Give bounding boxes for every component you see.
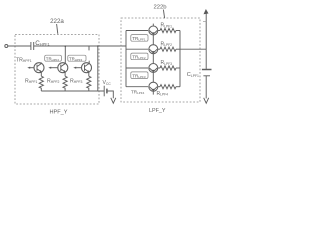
- svg-text:TRLPF1: TRLPF1: [132, 36, 146, 42]
- transistor TR_LPF3: [149, 64, 158, 83]
- transistor TR_LPF1: [149, 26, 158, 45]
- svg-text:TRLPF2: TRLPF2: [132, 55, 146, 61]
- box TR_LPF1: [131, 35, 148, 42]
- resistor R_LPF1: [160, 28, 176, 32]
- wire bus to TR_LPF1: [126, 30, 148, 32]
- stub above TR_LPF1: [152, 24, 154, 27]
- wire R_LPF1 to right bus: [176, 30, 180, 32]
- left bus: [125, 31, 127, 87]
- HPF_Y block dashed border: [15, 35, 99, 105]
- capacitor C_LPF: [202, 69, 212, 71]
- wire R_LPF2 to right bus: [176, 48, 180, 50]
- battery Vcc: [103, 86, 105, 97]
- svg-text:TRLPF3: TRLPF3: [132, 73, 146, 79]
- output wire to C_LPF line: [180, 48, 206, 50]
- box TR_HPF2: [45, 55, 62, 61]
- wire TR_LPF3 to R_LPF3: [158, 67, 160, 69]
- transistor TR_HPF1: [34, 62, 44, 76]
- svg-text:RLPF1: RLPF1: [161, 23, 173, 29]
- svg-text:222a: 222a: [50, 18, 64, 25]
- wire TR_LPF1 to R_LPF1: [158, 30, 160, 32]
- box TR_LPF3: [131, 72, 148, 79]
- ground arrow left: [111, 98, 116, 103]
- transistor TR_LPF2: [149, 45, 158, 64]
- svg-text:CLPF1: CLPF1: [187, 72, 199, 78]
- supply line with up arrow: [205, 13, 207, 49]
- wire into TR_HPF1 base: [30, 67, 34, 69]
- svg-text:TRHPF2: TRHPF2: [46, 56, 60, 62]
- svg-text:RLPF2: RLPF2: [161, 41, 173, 47]
- transistor TR_HPF2: [58, 45, 68, 76]
- wire bus to TR_LPF2: [126, 48, 148, 50]
- vertical rail wire right side of HPF_Y: [97, 46, 99, 91]
- ground bus wire: [41, 90, 104, 92]
- svg-text:RHPF1: RHPF1: [25, 78, 38, 84]
- transistor TR_HPF3: [82, 61, 92, 76]
- svg-text:RHPF2: RHPF2: [47, 78, 60, 84]
- resistor R_HPF1: [39, 76, 43, 91]
- wire capacitor to ground: [205, 76, 207, 99]
- resistor R_LPF4: [160, 85, 176, 89]
- wire TR_LPF2 to R_LPF2: [158, 48, 160, 50]
- transistor TR_LPF4: [149, 82, 158, 94]
- svg-text:TRLPF4: TRLPF4: [131, 90, 145, 96]
- svg-text:TRHPF1: TRHPF1: [16, 57, 32, 63]
- wire TR_LPF4 to R_LPF4: [158, 86, 160, 88]
- resistor R_HPF3: [87, 76, 91, 91]
- wire R_LPF3 to right bus: [176, 67, 180, 69]
- wire R_LPF4 to right bus: [176, 86, 180, 88]
- ground arrow right: [204, 98, 209, 103]
- svg-text:222b: 222b: [153, 4, 167, 10]
- stub from top wire near TR_HPF3: [88, 46, 90, 50]
- resistor R_LPF2: [160, 47, 176, 51]
- top wire node A: [34, 45, 126, 47]
- LPF_Y block dashed border: [121, 18, 200, 102]
- leader line 222b: [163, 10, 164, 19]
- right bus: [179, 31, 181, 87]
- input terminal: [5, 45, 8, 48]
- svg-text:VCC: VCC: [103, 80, 112, 86]
- box TR_HPF3: [68, 55, 86, 61]
- wire TR_HPF1 to TR_HPF2 with arrow: [48, 67, 51, 69]
- signal arrow into TR_HPF1: [27, 67, 30, 69]
- wire bus to TR_LPF3: [126, 67, 148, 69]
- resistor R_HPF2: [63, 76, 67, 91]
- svg-text:TRHPF3: TRHPF3: [69, 56, 83, 62]
- wire terminal to capacitor: [8, 45, 31, 47]
- wire TR_HPF2 to TR_HPF3 with arrow: [73, 67, 76, 69]
- leader line 222a: [57, 24, 58, 34]
- svg-text:RLPF4: RLPF4: [157, 91, 169, 97]
- capacitor C_HPF: [30, 42, 32, 50]
- svg-text:RLPF3: RLPF3: [161, 60, 173, 66]
- resistor R_LPF3: [160, 66, 176, 70]
- wire bus to TR_LPF4: [126, 86, 148, 88]
- svg-text:HPF_Y: HPF_Y: [49, 109, 67, 115]
- svg-text:LPF_Y: LPF_Y: [149, 108, 166, 114]
- box TR_LPF2: [131, 53, 148, 60]
- wire to capacitor C_LPF: [205, 49, 207, 69]
- wire battery to ground: [107, 91, 113, 98]
- svg-text:RHPF3: RHPF3: [70, 78, 83, 84]
